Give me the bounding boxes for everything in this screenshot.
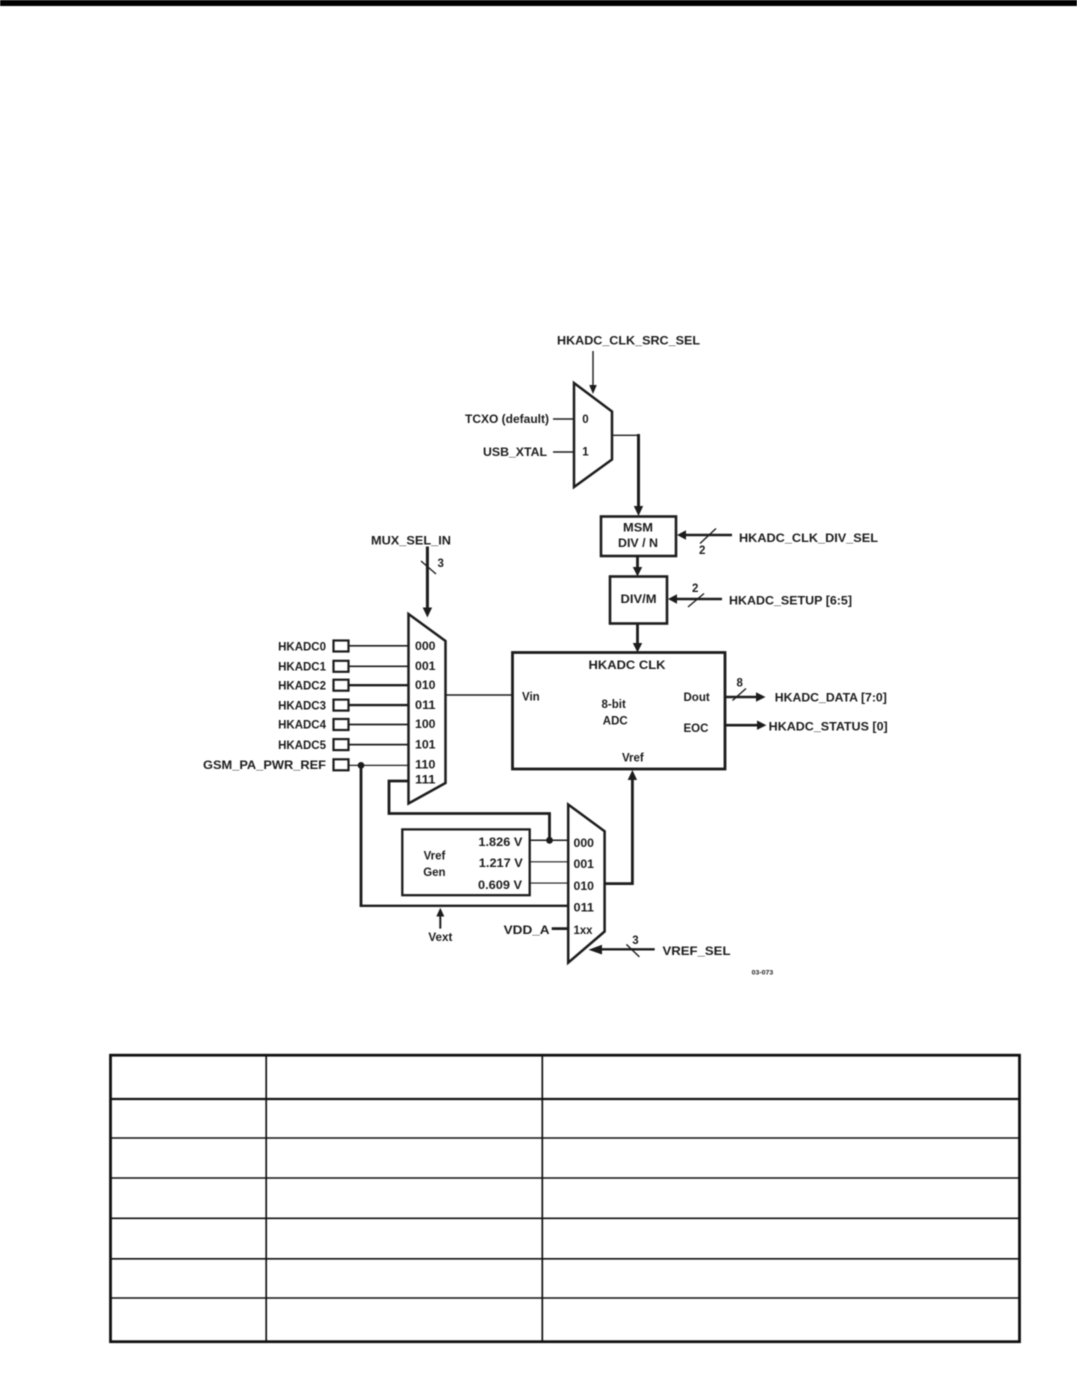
svg-text:DIV / N: DIV / N: [618, 538, 658, 550]
net Vext arrow to 011 line: [436, 908, 444, 929]
pad HKADC1: [334, 661, 349, 672]
svg-text:0: 0: [582, 414, 588, 426]
wire USB_XTAL to U1: [553, 451, 574, 453]
svg-text:Vref: Vref: [424, 851, 446, 863]
svg-text:000: 000: [415, 641, 436, 653]
svg-text:1: 1: [582, 447, 589, 459]
wire HKADC1 to U2: [349, 665, 409, 667]
svg-text:MUX_SEL_IN: MUX_SEL_IN: [371, 536, 451, 548]
wire GSM_PA_PWR_REF to U2: [349, 764, 409, 766]
svg-text:Vext: Vext: [428, 932, 452, 944]
svg-text:2: 2: [699, 545, 705, 557]
svg-text:VREF_SEL: VREF_SEL: [663, 946, 731, 958]
svg-text:HKADC_CLK_SRC_SEL: HKADC_CLK_SRC_SEL: [557, 336, 700, 348]
svg-text:HKADC5: HKADC5: [278, 740, 327, 752]
wire DIV/M to ADC clock input: [633, 624, 642, 653]
table row line 2: [111, 1137, 1020, 1139]
svg-text:1.826 V: 1.826 V: [478, 837, 522, 849]
svg-text:DIV/M: DIV/M: [621, 594, 657, 606]
svg-text:HKADC3: HKADC3: [278, 701, 326, 713]
svg-text:USB_XTAL: USB_XTAL: [483, 447, 547, 459]
svg-text:000: 000: [574, 838, 595, 850]
wire HKADC5 to U2: [349, 744, 409, 746]
mux U1 clock source select: [574, 383, 612, 487]
svg-text:100: 100: [415, 719, 436, 731]
wire TCXO to U1: [553, 418, 574, 420]
svg-text:001: 001: [415, 661, 436, 673]
svg-text:3: 3: [438, 558, 444, 570]
svg-text:3: 3: [632, 935, 638, 947]
svg-text:HKADC0: HKADC0: [278, 642, 326, 654]
svg-text:TCXO (default): TCXO (default): [465, 414, 549, 426]
svg-text:HKADC1: HKADC1: [278, 662, 327, 674]
wire HKADC0 to U2: [349, 645, 409, 647]
svg-text:2: 2: [692, 583, 698, 595]
bus VREF_SEL into U3 (3 bits): [589, 944, 655, 957]
wire 1.826V to U3 input 000: [530, 839, 568, 841]
svg-text:010: 010: [415, 680, 436, 692]
bus HKADC_SETUP into DIV/M (2 bits): [668, 594, 722, 608]
wire MSM to DIV/M: [633, 556, 642, 577]
svg-text:110: 110: [415, 760, 436, 772]
svg-text:HKADC_CLK_DIV_SEL: HKADC_CLK_DIV_SEL: [739, 533, 878, 545]
svg-text:010: 010: [574, 881, 595, 893]
svg-text:1.217 V: 1.217 V: [479, 858, 523, 870]
table row line 6: [111, 1297, 1020, 1299]
svg-text:001: 001: [574, 859, 595, 871]
table outer border: [111, 1055, 1020, 1342]
svg-text:8-bit: 8-bit: [602, 699, 626, 711]
block DIV/M: [610, 577, 667, 624]
pad HKADC2: [334, 680, 349, 691]
junction GSM_PA_PWR_REF node: [358, 762, 365, 769]
svg-text:MSM: MSM: [623, 523, 653, 535]
wire Vext line to mux U3 input 011: [360, 905, 568, 907]
table row line 3: [111, 1177, 1020, 1179]
table row line 5: [111, 1258, 1020, 1260]
header bar: [0, 0, 1077, 6]
svg-text:HKADC CLK: HKADC CLK: [589, 660, 667, 672]
table column line 2: [541, 1055, 543, 1342]
table row line 4: [111, 1217, 1020, 1219]
wire VDD_A to U3 input 1xx: [552, 927, 569, 930]
block Vref Gen: [402, 829, 529, 895]
table header row line: [111, 1098, 1020, 1100]
svg-text:Vref: Vref: [622, 753, 644, 765]
wire HKADC_STATUS out of ADC: [725, 721, 766, 730]
svg-text:HKADC_DATA [7:0]: HKADC_DATA [7:0]: [775, 693, 887, 705]
wire U2 output Vin to ADC: [446, 694, 513, 696]
wire HKADC3 to U2: [349, 704, 409, 706]
svg-text:111: 111: [415, 774, 436, 786]
svg-text:8: 8: [737, 678, 744, 690]
svg-text:Dout: Dout: [684, 692, 710, 704]
svg-text:011: 011: [574, 902, 595, 914]
pad HKADC3: [334, 700, 349, 711]
bus HKADC_CLK_DIV_SEL into MSM (2 bits): [677, 529, 732, 544]
wire HKADC_CLK_SRC_SEL arrow into mux U1: [589, 351, 597, 394]
junction 1.826V node: [546, 837, 553, 844]
svg-text:101: 101: [415, 739, 436, 751]
wire 1.217V to U3 input 001: [530, 861, 568, 863]
svg-text:Vin: Vin: [522, 692, 540, 704]
svg-text:1xx: 1xx: [574, 925, 594, 937]
block MSM DIV/N: [601, 517, 676, 557]
pad HKADC4: [334, 719, 349, 730]
svg-text:011: 011: [415, 700, 436, 712]
svg-text:GSM_PA_PWR_REF: GSM_PA_PWR_REF: [203, 760, 326, 772]
svg-text:HKADC_STATUS [0]: HKADC_STATUS [0]: [769, 721, 888, 733]
svg-text:HKADC2: HKADC2: [278, 681, 326, 693]
svg-text:HKADC_SETUP [6:5]: HKADC_SETUP [6:5]: [729, 596, 852, 608]
pad HKADC0: [334, 641, 349, 652]
svg-text:EOC: EOC: [684, 723, 709, 735]
svg-text:VDD_A: VDD_A: [504, 925, 550, 937]
wire 1.826V feedback to U2 input 111: [389, 781, 550, 840]
mux U3 vref select: [568, 805, 604, 963]
svg-text:ADC: ADC: [603, 716, 628, 728]
wire U1 output to MSM divider: [612, 434, 643, 516]
table column line 1: [265, 1055, 267, 1342]
wire 0.609V to U3 input 010: [530, 882, 568, 884]
wire HKADC2 to U2: [349, 684, 409, 686]
block ADC 8-bit: [513, 653, 726, 770]
svg-text:Gen: Gen: [423, 867, 445, 879]
wire HKADC4 to U2: [349, 724, 409, 726]
mux U2 input select: [409, 614, 446, 804]
bus MUX_SEL_IN into mux U2 (3 bits): [421, 547, 436, 618]
wire GSM_PA_PWR_REF down to Vext line: [360, 765, 363, 905]
pad HKADC5: [334, 739, 349, 750]
bus HKADC_DATA out of ADC (8 bits): [725, 689, 766, 702]
svg-text:0.609 V: 0.609 V: [478, 880, 522, 892]
pad GSM_PA_PWR_REF: [334, 759, 349, 770]
wire U3 output to ADC Vref input: [605, 770, 638, 885]
svg-text:03-073: 03-073: [752, 970, 774, 977]
svg-text:HKADC4: HKADC4: [278, 720, 327, 732]
